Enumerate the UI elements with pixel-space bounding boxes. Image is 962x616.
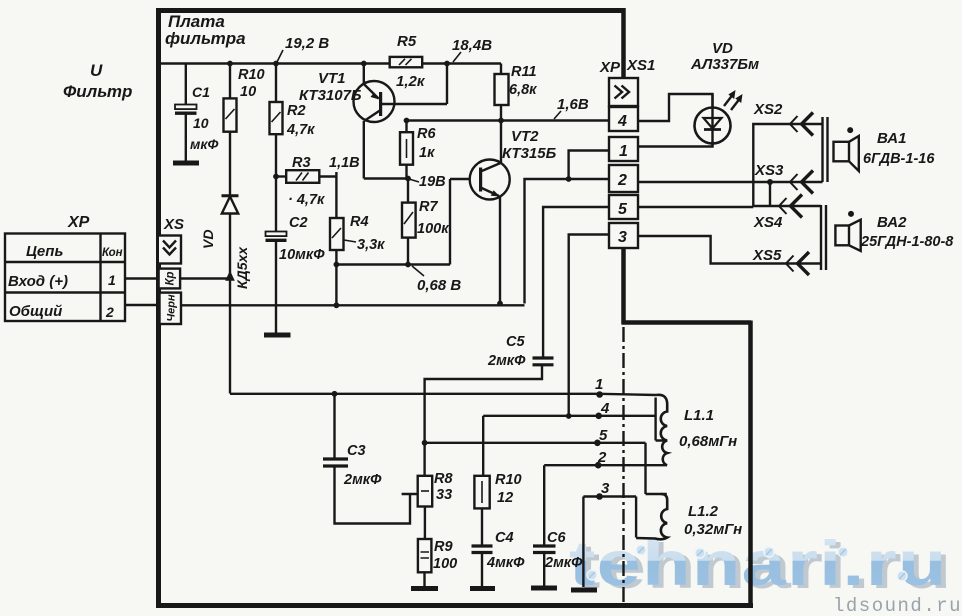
wire 0,68V emitter line [336,263,450,265]
XS socket chevrons [163,241,176,255]
wire L1.1 bottom lead [646,464,668,466]
input signal arrowhead [225,271,235,281]
XP table header divider [5,261,125,263]
VT2 collector diagonal [481,163,501,172]
capacitor C1 bottom plate [175,111,197,114]
connector XS1 pin 5 box [609,195,638,219]
svg-text:R10: R10 [495,472,522,488]
connector XP table frame [5,234,125,322]
svg-text:С6: С6 [547,530,566,546]
svg-text:2: 2 [105,304,114,320]
leader 18,4В [453,52,461,62]
XP table column divider [99,234,101,322]
capacitor C2 top plate [266,232,287,237]
connector XS3 chevron pair [790,174,798,190]
svg-text:ВА1: ВА1 [877,130,906,147]
capacitor C5 top plate [533,356,554,359]
resistor R6 top stem [405,121,407,133]
LED VD cathode bar [704,128,721,131]
resistor R10 mark [481,481,483,503]
svg-text:R3: R3 [292,155,311,171]
svg-text:VT1: VT1 [318,70,346,87]
svg-text:tehnari.ru: tehnari.ru [569,529,948,599]
capacitor C1 top plate [175,105,197,110]
board outline right border upper segment [621,8,626,79]
resistor R4 body [330,218,344,250]
board outline bump-out top edge [622,320,752,325]
svg-text:4: 4 [617,113,627,130]
connector XS socket symbol box [158,236,181,264]
junction dot 19V node [405,176,411,182]
capacitor C2 bottom plate [266,239,287,242]
speaker BA2 polarity dot [848,211,854,217]
VT2 emitter diagonal [481,188,499,197]
svg-text:XS1: XS1 [626,57,655,74]
wire top rail down to R11 [500,64,502,75]
wire pin2 net to common [525,179,612,304]
wire node5 net [425,442,646,444]
svg-text:10мкФ: 10мкФ [279,247,325,263]
svg-text:2мкФ: 2мкФ [544,555,583,571]
wire BA1 terminals [828,122,834,182]
wire pin1 net [569,151,611,180]
speaker BA1 box [834,142,850,162]
svg-text:12: 12 [497,490,513,506]
resistor R6 body [400,132,413,165]
wire pin5 box to riser [638,206,753,208]
resistor R10 body hatch [226,109,235,119]
wire node4 net [483,415,655,417]
wire R10 to C4 [481,508,483,545]
svg-text:XS4: XS4 [753,214,783,231]
connector XS4 chevron pair [779,198,787,214]
VT1 emitter arrowhead [371,93,380,100]
svg-text:18,4В: 18,4В [452,37,492,54]
svg-text:Черн: Черн [166,294,178,322]
LED VD circle [695,108,731,144]
ground bar below R9 [411,586,438,591]
capacitor C1 top stem [185,64,187,105]
svg-text:1,6В: 1,6В [557,96,589,113]
svg-text:R10: R10 [238,67,265,83]
junction dot 1,6V node [498,118,504,124]
svg-text:ldsound.ru: ldsound.ru [833,595,962,616]
junction dot pin1-pin2 tie [566,176,572,182]
svg-text:3: 3 [618,229,627,246]
svg-text:33: 33 [436,487,452,503]
wire pin2 box to XS3 [638,181,823,183]
svg-text:R11: R11 [511,64,537,80]
ground bar below C6 [531,586,557,591]
capacitor C6 bottom plate [533,551,556,554]
speaker BA2 terminal strip [821,205,826,270]
svg-text:1: 1 [595,376,603,393]
connector XS1 pin 1 box [609,137,638,161]
svg-text:R2: R2 [287,103,306,119]
inductor L1.2 top lead [646,493,667,495]
board outline bottom border [156,603,753,608]
board outline top border [157,8,623,13]
VT1 emitter diagonal [364,84,379,99]
svg-text:С1: С1 [192,84,210,100]
wire common bus1 [180,304,525,306]
wire node3 net [583,495,636,497]
board outline bump-out right border [748,321,753,607]
wire input signal from Кр [180,277,228,279]
svg-text:R5: R5 [397,33,417,50]
leader 0,68В [412,266,424,276]
ground bar below node3 drop [571,588,597,593]
ground bar below C2 [264,333,291,338]
capacitor C6 top plate [533,544,556,547]
resistor R6 mark [406,139,408,158]
wire C4 to ground [481,553,483,587]
junction dots top rail [227,61,233,67]
VT2 base vertical down to 0,68V wire [449,179,451,265]
connector XS pin Кр box [159,269,181,289]
junction dot C5 tee node5 [422,440,428,446]
wire R8 to R9 [424,507,426,540]
capacitor C2 bottom stem to ground [275,242,277,334]
wire riser pin5 to XS2 [753,124,822,207]
svg-text:XS2: XS2 [753,101,783,118]
capacitor C3 bottom plate [323,464,348,467]
svg-text:10: 10 [193,115,209,131]
VT1 collector stem down [363,121,365,179]
svg-text:VT2: VT2 [511,128,539,145]
leader 1,6В [554,111,561,119]
wire coil rail riser node5-node2-L1.2 [644,443,646,494]
svg-text:10: 10 [240,84,256,100]
connector XS5 chevron pair [786,256,794,272]
wire XP pin1 to XS [125,277,159,279]
svg-text:1: 1 [619,143,628,160]
svg-text:ХР: ХР [599,59,621,76]
resistor R11 bottom stem [500,105,502,121]
connector XS pin Черн box [160,293,182,324]
wire R3 right lead to 1,1V node [319,172,336,218]
resistor R8 mark [421,490,429,492]
resistor R5 hatch [399,59,412,65]
svg-text:L1.2: L1.2 [688,503,719,520]
svg-text:Общий: Общий [9,303,62,320]
junction dot R3 left [273,174,279,180]
resistor R3 hatch [296,173,309,181]
svg-text:5: 5 [618,201,628,218]
connector XS2 chevron pair [790,116,798,132]
junction dot node3 [596,493,603,500]
svg-text:25ГДН-1-80-8: 25ГДН-1-80-8 [860,234,954,250]
svg-text:1,2к: 1,2к [396,73,426,90]
LED emission arrows [724,93,741,110]
speaker BA1 polarity dot [847,127,853,133]
svg-text:1: 1 [108,272,116,288]
transistor VT1 circle [354,81,395,122]
svg-text:100к: 100к [417,221,449,237]
wire pin4 net 1,6V [407,119,610,121]
diode VD cathode bar [222,194,239,197]
svg-text:С4: С4 [495,530,514,546]
svg-text:XS: XS [163,216,184,233]
resistor R2 stems [275,64,277,232]
resistor R10 (bottom) top stem [482,416,484,476]
wire pin3 box to XS5 [638,236,821,264]
VT2 base bar [479,168,482,192]
capacitor C6 top stem [543,465,545,545]
wire XS3 junction down to XS4 [753,182,821,206]
junction dot emitter on bus1 [497,301,503,307]
wire C6 to ground [543,553,545,587]
resistor R7 body [402,203,416,238]
svg-text:С3: С3 [347,443,366,459]
wire node3 ground drop [582,497,584,588]
svg-text:U: U [90,61,103,80]
svg-text:Фильтр: Фильтр [63,82,132,101]
wire R9 to ground [423,572,425,586]
svg-text:L1.1: L1.1 [684,407,714,424]
board outline left border [156,8,161,606]
speaker BA1 horn [849,136,859,171]
resistor R11 body [495,74,509,105]
speaker BA2 horn [849,220,861,251]
junction dot node5 [594,440,601,447]
svg-text:Кон: Кон [102,247,123,259]
VT1 emitter stem from rail [363,64,365,85]
wire 19V node horizontal [364,177,408,179]
svg-text:АЛ337Бм: АЛ337Бм [690,56,759,73]
svg-text:3,3к: 3,3к [357,237,385,253]
svg-text:1,1В: 1,1В [329,155,360,171]
svg-text:4мкФ: 4мкФ [486,555,525,571]
wire XP pin2 to XS [125,304,160,306]
svg-text:2: 2 [617,172,627,189]
resistor R7 hatch [404,212,413,224]
junction dot R4 net on bus1 [334,302,340,308]
svg-text:0,32мГн: 0,32мГн [684,521,742,538]
resistor R5 body on rail [390,57,423,67]
svg-text:VD: VD [200,230,216,249]
resistor R10 (bottom) body [474,476,489,509]
svg-text:ВА2: ВА2 [877,214,907,231]
VT2 emitter stem down to bus1 [499,197,501,304]
resistor R8 body [418,476,433,507]
svg-text:6,8к: 6,8к [509,82,537,98]
svg-text:R8: R8 [434,471,453,487]
wire LED bottom to pin1 box [638,141,713,146]
svg-text:С2: С2 [289,215,308,231]
speaker BA2 box [835,226,849,246]
svg-text:0,68 В: 0,68 В [417,277,461,294]
svg-text:· 4,7к: · 4,7к [288,192,325,208]
svg-text:ХР: ХР [67,214,90,231]
resistor R2 hatch [272,112,281,122]
wire pin5 net down to C5 [543,207,611,358]
svg-text:19В: 19В [419,174,446,190]
capacitor C3 bottom route to R8 tap [335,466,418,524]
svg-text:3: 3 [601,480,610,497]
watermark screw heads [587,545,907,581]
wire R3 left lead [276,175,286,177]
wire node3 to L1.2 bottom [635,497,637,538]
svg-text:XS3: XS3 [754,162,784,179]
resistor R9 marks [421,552,430,558]
resistor R3 body [286,170,319,183]
capacitor C1 bottom stem [185,114,187,161]
VT1 base bar [379,92,382,116]
resistor R7 bottom stem [407,238,409,265]
wire 19,2V top rail [160,62,501,64]
VT2 emitter arrowhead [491,190,500,196]
capacitor C3 top plate [323,457,348,460]
XP table row divider [5,291,125,293]
wire node2 net from C6 [544,464,645,466]
svg-text:100: 100 [433,556,457,572]
leader 19В [409,179,419,182]
wire pin4 box to LED [638,94,713,121]
capacitor C4 bottom plate [472,551,493,554]
wire pin3 net down to node4 line [569,235,611,417]
svg-text:0,68мГн: 0,68мГн [679,433,737,450]
svg-text:R9: R9 [434,539,453,555]
svg-text:R6: R6 [417,126,436,142]
svg-text:4,7к: 4,7к [286,122,315,138]
LED VD pass-through lead [711,94,713,147]
svg-text:мкФ: мкФ [190,136,218,152]
XS1 plug chevrons [615,86,630,99]
svg-text:КД5хх: КД5хх [234,246,250,289]
transistor VT2 circle [470,160,510,200]
inductor L1.1 left rail [656,398,667,441]
ground bar below C4 [470,586,495,591]
connector XS1 pin 3 box [609,223,638,248]
svg-text:2мкФ: 2мкФ [343,472,382,488]
resistor R6 bottom stem [405,165,407,179]
resistor R7 top stem [407,179,409,203]
svg-text:6ГДВ-1-16: 6ГДВ-1-16 [863,151,935,167]
svg-text:Вход (+): Вход (+) [8,273,68,290]
board edge chain line at x=623 [622,327,624,602]
svg-text:С5: С5 [506,334,525,350]
inductor L1.1 coil humps [656,395,667,465]
ground bar below C1 [173,161,199,166]
resistor R2 body [270,102,283,134]
VT2 collector stem up to 1,6V node [500,121,502,164]
resistor R10 (top) body [224,98,237,131]
junction dot node2 [595,462,602,469]
svg-text:Кр: Кр [165,271,177,285]
capacitor C4 top plate [472,544,493,547]
junction dot node1 [596,391,603,398]
junction dot pin3 on node4 net [566,413,572,419]
wire R4 bottom to bus1 [335,250,337,306]
resistor R9 body [418,539,432,572]
connector XS1 pin 4 box [609,107,638,131]
svg-text:КТ3107Б: КТ3107Б [299,87,362,104]
svg-text:VD: VD [712,40,733,57]
capacitor C3 stem from bus2 [333,394,335,459]
svg-text:КТ315Б: КТ315Б [502,145,557,162]
svg-text:2мкФ: 2мкФ [487,353,526,369]
VT1 collector diagonal [365,110,381,121]
board outline right border below connector [621,248,626,324]
junction XS3 node [767,179,773,185]
diode VD triangle [222,197,238,214]
svg-text:19,2 В: 19,2 В [285,35,329,52]
capacitor C5 bottom plate [533,363,554,366]
svg-text:фильтра: фильтра [165,29,246,48]
svg-text:R7: R7 [419,199,438,215]
junction dot node4 [595,413,602,420]
leader 19,2В [277,50,283,62]
connector XS1 plug symbol box [609,78,638,106]
VT2 base lead [450,178,470,180]
LED VD triangle [704,118,722,129]
inductor L1.2 coil humps [636,494,667,539]
junction dot R4 emitter tee [334,262,340,268]
svg-text:R4: R4 [350,214,369,230]
svg-text:1к: 1к [419,145,435,161]
resistor R10 (top) stems [229,64,231,197]
resistor R4 hatch [332,228,341,238]
svg-text:Цепь: Цепь [26,243,63,260]
junction dot R6 top on pin4 net [404,118,410,124]
diode VD lower stem down to bus2 [229,214,231,394]
capacitor C5 top stem from pin5 riser done above; C5 bottom lead [425,365,542,476]
junction dot C3 branch on bus2 [332,391,338,397]
VT1 base lead right and up to rail [381,64,447,105]
wire bus2 node1 net [230,394,656,395]
speaker BA1 terminal strip [823,117,828,182]
junction dot 0,68V node [405,262,411,268]
connector XS1 pin 2 box [609,165,638,192]
svg-text:XS5: XS5 [752,247,782,264]
